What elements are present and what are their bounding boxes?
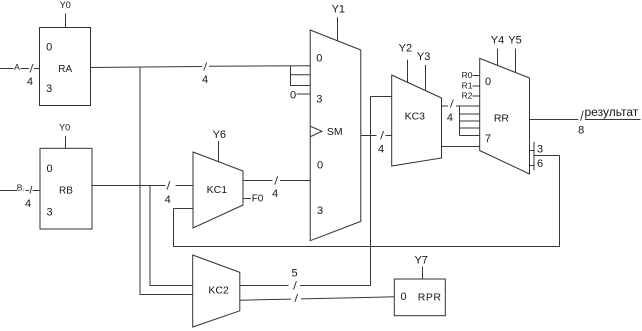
wire RA branch down to KC2 xyxy=(140,67,193,295)
wire RR input pin stub 4 xyxy=(460,135,481,137)
svg-text:R1: R1 xyxy=(462,80,473,90)
svg-text:0: 0 xyxy=(400,291,406,303)
svg-text:3: 3 xyxy=(317,205,323,217)
junction bus bar RR bits 3..6 xyxy=(533,142,535,171)
svg-text:3: 3 xyxy=(316,93,322,105)
wire KC3 lower output to RR pin 7 xyxy=(442,146,481,148)
svg-text:B.: B. xyxy=(17,182,25,192)
svg-text:4: 4 xyxy=(25,198,31,210)
svg-text:4: 4 xyxy=(447,112,453,124)
control Y1 of SM xyxy=(332,4,345,41)
control Y3 of KC3 xyxy=(417,51,430,91)
svg-text:KC2: KC2 xyxy=(208,284,229,296)
svg-text:4: 4 xyxy=(272,188,278,200)
register RA xyxy=(40,28,91,106)
svg-text:6: 6 xyxy=(537,158,543,170)
svg-text:Y6: Y6 xyxy=(213,129,226,141)
wire KC2 output to RPR xyxy=(240,299,291,300)
svg-text:Y7: Y7 xyxy=(414,255,427,267)
bus slash RB-KC1 4 bits xyxy=(165,181,171,206)
wire B input to RB xyxy=(0,190,17,192)
svg-text:A: A xyxy=(14,62,20,72)
wire RB branch down to KC2 xyxy=(150,186,193,286)
multiplexer KC1 xyxy=(193,152,243,228)
svg-text:0: 0 xyxy=(46,163,52,175)
wire RR input pin stub 2 xyxy=(460,120,481,122)
control Y6 of KC1 xyxy=(213,129,226,162)
wire A input to RA xyxy=(0,68,14,70)
svg-text:0: 0 xyxy=(46,42,52,54)
svg-text:KC1: KC1 xyxy=(207,184,228,196)
bus slash B 4 bits xyxy=(25,186,32,210)
svg-text:F0: F0 xyxy=(252,194,264,205)
svg-text:8: 8 xyxy=(578,125,584,137)
junction bus bar at RR inputs xyxy=(459,106,461,136)
adder SM xyxy=(310,30,361,241)
bus slash KC3-RR 4 bits xyxy=(447,100,453,125)
svg-text:5: 5 xyxy=(292,267,298,279)
bus slash A 4 bits xyxy=(27,64,33,88)
control Y0 of RB xyxy=(59,123,70,149)
bus slash KC2-KC3 5 bits xyxy=(292,267,298,289)
svg-text:Y0: Y0 xyxy=(60,0,71,10)
register RB xyxy=(40,148,92,229)
svg-text:RPR: RPR xyxy=(418,292,442,304)
wire RR feedback to KC1 xyxy=(174,156,560,247)
svg-text:R2: R2 xyxy=(462,91,473,101)
wire RR input pin stub 3 xyxy=(460,127,481,129)
svg-text:3: 3 xyxy=(537,144,543,156)
svg-text:7: 7 xyxy=(485,133,491,145)
constant 0 input to SM pin 3 xyxy=(290,90,311,102)
svg-text:Y1: Y1 xyxy=(332,4,345,16)
svg-text:Y2: Y2 xyxy=(399,43,412,55)
wire KC1 output to SM xyxy=(243,180,273,182)
svg-text:0: 0 xyxy=(485,76,491,88)
wire feedback to KC1 lower input xyxy=(174,209,194,248)
node A input label xyxy=(14,62,20,72)
svg-text:Y0: Y0 xyxy=(59,123,70,133)
wire KC3 output to RR xyxy=(442,105,449,107)
svg-text:RR: RR xyxy=(494,113,510,125)
junction bus bar at SM inputs xyxy=(290,66,292,86)
bus slash SM-KC3 4 bits xyxy=(378,131,384,155)
pin 6 tap of RR xyxy=(530,158,544,170)
node R1 input xyxy=(462,80,480,90)
svg-text:3: 3 xyxy=(46,206,52,218)
register RR xyxy=(480,58,530,174)
node result label xyxy=(585,105,639,119)
pin F0 of KC1 xyxy=(243,194,264,205)
multiplexer KC3 xyxy=(392,75,442,166)
multiplexer KC2 xyxy=(193,255,240,327)
node B input label xyxy=(17,182,25,192)
control Y2 of KC3 xyxy=(399,43,412,83)
svg-text:0: 0 xyxy=(317,159,323,171)
wire RA output to SM xyxy=(91,67,203,68)
wire RB output to KC1 xyxy=(92,185,166,187)
control Y5 of RR xyxy=(508,35,521,73)
svg-text:4: 4 xyxy=(378,143,384,155)
register RPR xyxy=(394,279,445,316)
svg-text:RB: RB xyxy=(59,185,73,196)
svg-text:R0: R0 xyxy=(462,70,473,80)
wire SM output to KC3 xyxy=(361,135,377,137)
svg-text:KC3: KC3 xyxy=(405,110,426,122)
svg-text:0: 0 xyxy=(290,90,296,102)
svg-text:Y3: Y3 xyxy=(417,51,430,63)
wire RR input pin stub 1 xyxy=(460,113,481,115)
bus slash RA-SM 4 bits xyxy=(204,63,207,71)
svg-text:4: 4 xyxy=(165,194,171,206)
control Y0 of RA xyxy=(60,0,71,27)
svg-text:4: 4 xyxy=(202,74,208,86)
svg-text:Y4: Y4 xyxy=(491,35,504,47)
bus slash result 8 bits xyxy=(578,111,584,137)
svg-text:4: 4 xyxy=(27,76,33,88)
bus slash KC2-RPR xyxy=(295,294,298,302)
wire SM input pin 2 stub xyxy=(291,85,311,87)
svg-text:3: 3 xyxy=(46,83,52,95)
svg-text:SM: SM xyxy=(327,126,343,138)
wire SM input pin 1 stub xyxy=(291,74,311,76)
pin 3 tap of RR xyxy=(530,144,544,156)
svg-text:результат: результат xyxy=(585,105,639,119)
wire RR output result xyxy=(530,119,641,121)
wire KC2 output to KC3 xyxy=(240,97,392,286)
node R0 input xyxy=(462,70,480,80)
control Y7 of RPR xyxy=(414,255,427,279)
node R2 input xyxy=(462,91,480,101)
svg-text:Y5: Y5 xyxy=(508,35,521,47)
svg-text:RA: RA xyxy=(58,64,72,75)
svg-text:0: 0 xyxy=(316,53,322,65)
bus slash KC1-SM 4 bits xyxy=(272,176,278,200)
control Y4 of RR xyxy=(491,35,504,66)
